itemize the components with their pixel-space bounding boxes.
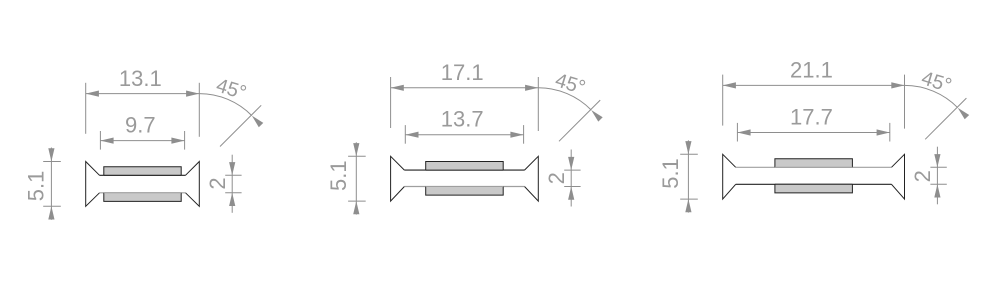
svg-text:13.1: 13.1 [119,66,162,91]
svg-text:2: 2 [910,170,935,182]
svg-text:13.7: 13.7 [441,107,484,132]
svg-text:5.1: 5.1 [658,158,683,189]
svg-text:17.1: 17.1 [441,60,484,85]
svg-text:5.1: 5.1 [23,171,48,202]
svg-text:9.7: 9.7 [125,113,156,138]
svg-text:5.1: 5.1 [326,160,351,191]
svg-text:2: 2 [205,177,230,189]
svg-text:21.1: 21.1 [790,58,833,83]
svg-text:17.7: 17.7 [790,105,833,130]
svg-text:2: 2 [544,172,569,184]
